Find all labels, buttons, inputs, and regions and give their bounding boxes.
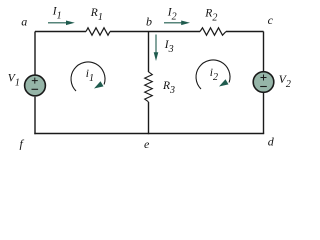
- wire R3 down to e: [148, 102, 150, 134]
- mesh current i2: [196, 60, 230, 89]
- svg-text:f: f: [20, 137, 25, 151]
- current arrow I1: [48, 21, 75, 26]
- svg-text:R1: R1: [90, 7, 103, 23]
- svg-text:e: e: [144, 137, 150, 151]
- svg-text:V1: V1: [8, 72, 20, 88]
- svg-text:R3: R3: [162, 80, 175, 96]
- svg-text:b: b: [146, 14, 152, 28]
- svg-text:I3: I3: [164, 39, 174, 55]
- svg-text:R2: R2: [204, 8, 217, 24]
- svg-text:V2: V2: [279, 74, 291, 90]
- wire R2 to c: [226, 31, 264, 33]
- wire V2 down to d: [263, 93, 265, 134]
- current arrow I2: [164, 21, 190, 26]
- wire right: c down to V2: [263, 32, 265, 72]
- svg-text:I1: I1: [52, 6, 62, 22]
- wire top-left: a to R1: [35, 31, 86, 33]
- voltage source V1: [25, 75, 46, 96]
- wire V1 down to f: [34, 97, 36, 134]
- svg-text:i1: i1: [86, 68, 94, 84]
- wire R1 to b: [110, 31, 200, 33]
- wire bottom: f to d: [34, 133, 264, 135]
- svg-text:d: d: [268, 135, 275, 149]
- resistor R3: [145, 72, 153, 102]
- resistor R1: [86, 28, 110, 35]
- mesh current i1: [71, 62, 105, 91]
- svg-text:a: a: [21, 15, 27, 29]
- svg-text:c: c: [268, 13, 274, 27]
- current arrow I3: [154, 35, 159, 62]
- resistor R2: [200, 28, 226, 35]
- voltage source V2: [253, 72, 274, 93]
- wire middle: b down to R3: [148, 32, 150, 73]
- svg-text:i2: i2: [210, 67, 218, 83]
- svg-text:I2: I2: [167, 6, 177, 22]
- wire left: a down to V1: [34, 32, 36, 76]
